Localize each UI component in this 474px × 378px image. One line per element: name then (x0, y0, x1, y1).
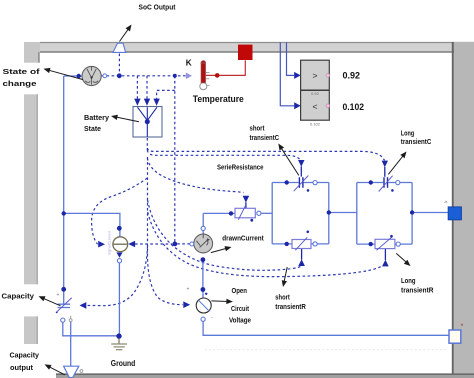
arrow into Long transientC (382, 161, 388, 168)
port Capacity output triangle (64, 366, 83, 377)
svg-text:transientC: transientC (401, 137, 432, 146)
annotation arrow Capacity (39, 296, 61, 306)
frame left corner block (24, 42, 40, 63)
svg-text:0.102: 0.102 (310, 122, 321, 127)
wire signal-current bottom to junction (118, 263, 120, 336)
svg-text:<: < (313, 102, 318, 112)
arrow below signal-current (116, 252, 122, 257)
wire dashed main vertical bus x175 (174, 76, 176, 244)
svg-text:short: short (250, 124, 266, 133)
wire sensor to SerieResistance (203, 212, 235, 214)
wire dashed bus to capacity (86, 246, 148, 306)
annotation arrow SoC Output (120, 25, 132, 42)
svg-text:0.92: 0.92 (343, 71, 361, 81)
wire dashed bus to Long transientC (147, 148, 384, 160)
svg-text:+: + (57, 293, 60, 299)
capacitor Capacity variable (56, 211, 72, 322)
svg-text:signalCurrent: signalCurrent (107, 230, 112, 255)
annotation arrow short transientR (282, 267, 288, 287)
thermometer K sensor (200, 61, 210, 90)
port pin negative white square (449, 330, 461, 343)
wire RC1 to RC2 (329, 212, 357, 214)
arrow into open-circuit-voltage (183, 301, 190, 308)
gauge SoC sensor (82, 66, 101, 85)
svg-text:State of: State of (3, 67, 41, 76)
svg-text:Voltage: Voltage (229, 315, 251, 324)
svg-text:Open: Open (232, 286, 248, 295)
arrow into capacity (80, 302, 87, 309)
svg-text:transientR: transientR (401, 286, 434, 295)
speck near blue port (444, 201, 447, 203)
wire sensor top (202, 213, 204, 234)
resistor R1 short transientR (285, 231, 318, 251)
svg-text:Battery: Battery (84, 113, 110, 122)
node junction SoC (117, 73, 122, 78)
svg-text:output: output (10, 363, 34, 372)
node RC1 right junction (327, 210, 331, 214)
svg-text:transientR: transientR (275, 302, 306, 311)
svg-text:Capacity: Capacity (10, 350, 40, 359)
svg-text:0.102: 0.102 (343, 102, 365, 112)
arrow into short transientR (298, 259, 305, 266)
wire dashed bus vertical to open-circuit-voltage (148, 157, 183, 305)
wire dashed junction to signal-current right (135, 243, 172, 245)
annotation arrow short transientC (278, 144, 299, 176)
wire dashed bus to Long transientR (148, 212, 383, 277)
svg-text:drawnCurrent: drawnCurrent (222, 233, 264, 242)
wire dashed junction to drawnCurrent sensor (177, 243, 190, 245)
annotation arrow Capacity output (45, 364, 65, 374)
svg-text:SoC Output: SoC Output (139, 2, 176, 11)
annotation arrow Long transientC (388, 152, 406, 175)
annotation arrow Battery State (111, 115, 139, 122)
wire dashed battery-state feed 1 (136, 76, 138, 99)
resistor R2 Long transientR (369, 235, 401, 250)
comparator block (301, 60, 330, 126)
annotation arrow Open Circuit Voltage (211, 299, 233, 304)
wire OCV internal (202, 291, 204, 298)
wire dashed gauge to thermometer (101, 75, 185, 77)
node dot gauge left (77, 74, 81, 78)
svg-text:Capacity: Capacity (2, 292, 35, 301)
ground (111, 339, 127, 350)
node junction dashed x175 (172, 242, 177, 247)
stub short transientC (300, 166, 302, 176)
node junction ground (116, 333, 121, 338)
capacitor C2 Long transientC (369, 176, 400, 192)
annotation arrow State of change (44, 68, 84, 80)
wire dashed SoC-output stub (118, 54, 120, 76)
frame top bar (40, 42, 474, 53)
svg-text:short: short (275, 293, 290, 302)
sensor drawnCurrent (190, 226, 213, 262)
wire rail to signal-current top (64, 213, 120, 236)
wire dashed bus to SerieResistance (147, 158, 243, 193)
wire comparator feed upper (287, 42, 295, 75)
wire dashed faint bottom (205, 349, 447, 351)
wire dashed bus to short transientR (148, 200, 301, 270)
arrow into SerieResistance (243, 196, 250, 203)
svg-text:SerieResistance: SerieResistance (217, 162, 264, 171)
svg-text:-: - (211, 315, 213, 321)
wire OCV bottom (203, 321, 449, 335)
arrow into signal-current left (98, 241, 105, 248)
resistor SerieResistance (229, 205, 261, 222)
arrow into Long transientR (382, 260, 389, 267)
stub Long transientR (384, 249, 386, 260)
battery arrow 3 (153, 99, 159, 106)
wire capacity output (70, 322, 72, 366)
svg-text:transientC: transientC (250, 133, 280, 142)
arrow into short transientC (298, 160, 304, 167)
arrow into signal-current right (128, 241, 135, 248)
port pin positive blue square (448, 207, 461, 220)
wire capacity bottom to junction (63, 322, 117, 336)
node RC2 right junction (410, 210, 414, 214)
svg-text:Long: Long (401, 276, 416, 285)
arrow comparator lower input (294, 102, 300, 109)
svg-text:K: K (186, 59, 192, 68)
stub SerieResistance (245, 202, 247, 208)
source openCircuitVoltage V1 (187, 287, 214, 322)
wire dashed bus to short transientC (147, 150, 301, 160)
capacitor C1 short transientC (285, 176, 318, 192)
svg-text:0.92: 0.92 (311, 91, 320, 96)
wire SerieResistance to RC1 (261, 212, 272, 214)
battery arrow 1 (134, 99, 140, 106)
arrow into thermometer (186, 73, 192, 80)
pin gauge right open (103, 74, 107, 78)
svg-text:+: + (187, 287, 190, 293)
svg-text:>: > (313, 71, 318, 81)
wire dashed battery-state output stub (146, 138, 148, 150)
annotation arrow Long transientR (396, 253, 410, 266)
port SoC output triangle (113, 43, 126, 52)
frame bottom bar (56, 374, 474, 378)
svg-text:State: State (84, 124, 101, 133)
svg-text:Ground: Ground (111, 359, 136, 368)
svg-text:change: change (3, 79, 37, 88)
battery arrow 2 (144, 99, 150, 106)
arrow comparator upper input (294, 72, 300, 79)
node junction bus x175 (173, 74, 177, 78)
wire sensor bottom to OCV (202, 260, 204, 290)
svg-text:Circuit: Circuit (231, 304, 249, 313)
wire dashed bus to signal-current left (92, 178, 148, 244)
node red dot (215, 73, 220, 78)
block red constant (238, 45, 253, 60)
frame right margin (453, 42, 474, 378)
wire gauge to left rail (64, 75, 82, 77)
wire comparator feed lower (280, 42, 294, 106)
frame left bar segment lower (24, 316, 38, 344)
wire dashed battery-state feed 2 (146, 76, 148, 99)
frame left bar segment middle (24, 94, 38, 284)
wire RC1 loop (272, 183, 329, 244)
svg-text:Temperature: Temperature (193, 94, 244, 104)
wire RC2 loop (357, 183, 412, 245)
wire dashed battery-state feed 3 detour (157, 90, 175, 98)
speck near white port (461, 324, 463, 326)
annotation arrow drawnCurrent (211, 246, 232, 253)
battery state mux U1 (133, 107, 162, 138)
wire red thermometer to square (206, 60, 246, 75)
wire left rail vertical (63, 76, 65, 304)
stub short transientR (301, 249, 303, 260)
wire RC2 to pin port (412, 212, 448, 214)
stub Long transientC (384, 167, 386, 177)
source signalCurrent I1 (107, 226, 128, 263)
